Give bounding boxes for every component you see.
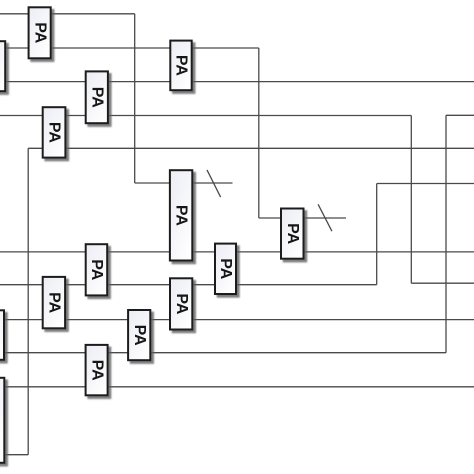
wire vertical V5 bbox=[376, 184, 378, 285]
svg-text:PA: PA bbox=[31, 22, 48, 43]
svg-text:PA: PA bbox=[173, 205, 190, 226]
svg-text:PA: PA bbox=[46, 122, 63, 143]
bus slash mark 2 bbox=[318, 204, 332, 231]
PA amplifier U10 bbox=[170, 278, 192, 329]
wire row5 bus bbox=[28, 147, 474, 149]
PA amplifier U8 bbox=[215, 244, 236, 294]
wire vertical V3 bbox=[410, 116, 412, 284]
wire row8 bus full width bbox=[0, 251, 474, 253]
wire stub from U15 bbox=[5, 454, 29, 456]
svg-text:PA: PA bbox=[131, 325, 148, 346]
wire row3 bus full width bbox=[5, 81, 474, 83]
PA amplifier U7 bbox=[86, 244, 108, 295]
PA amplifier U6 bbox=[281, 209, 304, 259]
wire input row4 bbox=[0, 115, 411, 117]
wire node into U5 row6a bbox=[135, 182, 233, 184]
svg-text:PA: PA bbox=[173, 293, 190, 314]
wire node into U6 bbox=[259, 217, 346, 219]
wire output row6b bbox=[377, 183, 474, 185]
PA amplifier U4 bbox=[43, 107, 66, 157]
PA amplifier U5 (tall) bbox=[170, 170, 192, 260]
PA amplifier U11 bbox=[128, 310, 150, 360]
wire row10 bus from U14 bbox=[5, 319, 474, 321]
PA amplifier U9 bbox=[43, 277, 65, 328]
svg-text:PA: PA bbox=[88, 360, 105, 381]
PA amplifier U3 bbox=[170, 41, 191, 91]
wire input row2 from U13 bbox=[5, 47, 259, 49]
svg-text:PA: PA bbox=[88, 259, 105, 280]
wire row9a bbox=[0, 284, 377, 286]
wire output row9b bbox=[411, 282, 474, 284]
PA amplifier U1 bbox=[29, 7, 51, 58]
bus slash mark 1 bbox=[207, 170, 221, 197]
wire row12 bus from U15 bbox=[5, 386, 474, 388]
svg-text:PA: PA bbox=[173, 55, 190, 76]
wire row11 from U14 bbox=[5, 352, 447, 354]
svg-text:PA: PA bbox=[217, 258, 234, 279]
amplifier U13 (left edge, partial) bbox=[0, 41, 5, 91]
PA amplifier U12 bbox=[86, 345, 108, 395]
wire vertical V4 bbox=[445, 115, 447, 352]
svg-text:PA: PA bbox=[88, 87, 105, 108]
wire vertical V6 bbox=[27, 148, 29, 454]
wire vertical V1 bbox=[134, 14, 136, 183]
wire output row4b bbox=[446, 114, 474, 116]
amplifier U14 (left edge, partial) bbox=[0, 310, 4, 360]
wire input row1 bbox=[0, 13, 135, 15]
svg-text:PA: PA bbox=[284, 223, 301, 244]
wire vertical V2 bbox=[258, 48, 260, 218]
svg-text:PA: PA bbox=[46, 292, 63, 313]
PA amplifier U2 bbox=[86, 71, 108, 123]
amplifier U15 (left edge, partial, tall) bbox=[0, 378, 4, 463]
